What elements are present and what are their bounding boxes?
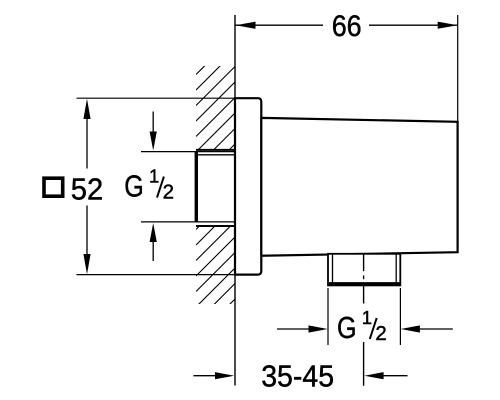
svg-text:66: 66 [332, 10, 362, 43]
centerline of outlet (dash-dot) [363, 254, 365, 271]
outlet nipple end bar (thick) [329, 282, 400, 285]
G1/2 outlet arrow left [277, 328, 312, 330]
svg-text:1: 1 [149, 166, 159, 187]
G1/2 inlet arrow up [152, 240, 154, 261]
inlet socket outer bottom line [196, 225, 235, 227]
label G 1/2 (inlet) [124, 166, 174, 204]
G1/2 outlet arrow right [417, 328, 453, 330]
svg-text:35-45: 35-45 [261, 359, 334, 394]
dimension 52 extension line bottom [77, 274, 236, 276]
svg-text:52: 52 [71, 172, 104, 207]
inlet thread inner top line + extension [141, 151, 235, 153]
dimension 66 line left segment [236, 24, 324, 26]
G1/2 outlet extension line left [327, 288, 329, 345]
outlet nipple thread line left [332, 254, 334, 285]
dimension 52 line upper segment [86, 115, 88, 169]
dimension 52 extension line top [77, 97, 236, 99]
dimension 52 arrowhead down [83, 254, 90, 274]
dimension 66 line right segment [369, 24, 458, 26]
dimension 66 arrowhead left [236, 22, 256, 29]
dimension 66 arrowhead right [438, 22, 458, 29]
inlet thread inner bottom line + extension [141, 221, 235, 223]
dimension 66 extension line right [457, 15, 459, 122]
svg-text:2: 2 [163, 181, 174, 204]
square symbol for 52 [44, 178, 63, 196]
G1/2 inlet arrow down [152, 112, 154, 136]
wall hatching [196, 36, 235, 339]
label G 1/2 (outlet) [337, 307, 387, 345]
flange (wall plate) [235, 98, 261, 274]
body (tapered block) [261, 118, 457, 256]
dimension 52 line lower segment [86, 206, 88, 259]
G1/2 outlet extension line right [399, 288, 401, 345]
dimension 52 arrowhead up [83, 99, 90, 119]
outlet nipple outer rect [328, 254, 400, 286]
inlet closed end (thick) [195, 151, 198, 222]
svg-text:G: G [124, 169, 144, 204]
wall face line [234, 15, 236, 386]
dimension 35-45 arrow right [381, 375, 408, 377]
inlet socket outer top line [196, 149, 235, 151]
dimension 35-45 arrow left [193, 375, 219, 377]
outlet nipple thread line right [395, 254, 397, 285]
